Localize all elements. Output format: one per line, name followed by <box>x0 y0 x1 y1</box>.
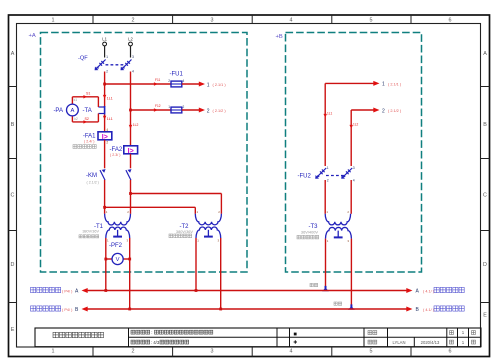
label -QF <box>78 55 88 61</box>
label -FA2 <box>110 147 123 153</box>
svg-text:3: 3 <box>211 349 214 355</box>
svg-text:E: E <box>11 327 15 333</box>
svg-text:380V/36V: 380V/36V <box>176 229 193 234</box>
CT terminal labels <box>74 92 91 121</box>
svg-text:2: 2 <box>132 18 135 24</box>
svg-text:6: 6 <box>449 349 452 355</box>
title block outline <box>35 328 481 347</box>
svg-text:-FU1: -FU1 <box>170 71 184 77</box>
zone column ticks top/bottom <box>93 15 411 357</box>
off-page arrow 1 right box <box>325 81 402 88</box>
svg-text:4: 4 <box>290 18 293 24</box>
wire mark F11 <box>154 78 161 86</box>
CT TA bracket <box>98 106 104 115</box>
svg-text:( 4.1/ ): ( 4.1/ ) <box>423 308 435 312</box>
wire voltmeter taps <box>106 258 130 260</box>
T2 center tap <box>204 230 213 237</box>
wire T3 sec left down <box>325 239 327 287</box>
cell designer label <box>368 340 377 344</box>
wire L1 down to feeder junction <box>104 72 106 108</box>
bus A right arrow <box>406 288 412 293</box>
zone row letters <box>11 51 488 333</box>
title block mid line <box>129 336 482 338</box>
junction T1 bus A <box>104 289 107 292</box>
bus B left arrow <box>82 307 88 312</box>
svg-text:( 2.3/ ): ( 2.3/ ) <box>110 153 120 157</box>
wire T1 sec right down <box>129 238 131 309</box>
svg-text:( 4.1/ ): ( 4.1/ ) <box>423 289 435 293</box>
wire CT loop left <box>71 97 73 122</box>
title block verticals <box>129 328 469 347</box>
svg-text:4: 4 <box>353 178 355 182</box>
svg-text:3: 3 <box>132 55 134 59</box>
svg-text:380V/36V: 380V/36V <box>82 230 99 234</box>
voltmeter PF2 <box>112 253 123 264</box>
junction feeder2 <box>129 109 132 112</box>
svg-text:2: 2 <box>207 108 210 114</box>
wire label L11 <box>324 112 333 118</box>
contactor KM pole2 <box>126 169 132 180</box>
svg-text:2: 2 <box>106 140 108 144</box>
label -PA <box>53 108 63 114</box>
bus A label right <box>416 287 465 294</box>
wire FU2 pole2 to T3 <box>350 180 352 214</box>
bus B label left <box>31 306 80 313</box>
revision plus <box>294 340 297 343</box>
svg-text:36V/400V: 36V/400V <box>301 230 318 235</box>
svg-text:4: 4 <box>106 128 108 132</box>
T2 rating text <box>176 229 193 234</box>
zone row ticks left/right <box>9 87 490 303</box>
svg-text:k2: k2 <box>74 117 78 121</box>
label -FU2 <box>298 173 312 179</box>
enclosure box +A <box>41 33 248 273</box>
svg-text:2: 2 <box>327 178 329 182</box>
svg-text:1: 1 <box>168 105 170 109</box>
svg-text:3: 3 <box>353 166 355 170</box>
fused switch FU2 pole1 <box>315 166 329 183</box>
transformer T3 primary <box>325 210 350 225</box>
svg-text:1L1: 1L1 <box>327 112 333 116</box>
label +A <box>29 33 36 39</box>
svg-text:+B: +B <box>276 34 283 40</box>
svg-text:5: 5 <box>370 18 373 24</box>
wire CT loop right <box>97 97 99 122</box>
ref FA2 <box>110 153 120 157</box>
svg-text:( P4/ ): ( P4/ ) <box>62 289 73 293</box>
bus tap T3 right <box>348 304 355 309</box>
wire label L21 <box>350 123 359 129</box>
bus A label left <box>31 287 80 294</box>
svg-text:A: A <box>483 51 487 57</box>
revision square <box>294 333 297 336</box>
terminal L1 <box>102 37 107 46</box>
wire T3 sec right down <box>350 239 352 305</box>
bus B label right <box>416 306 465 313</box>
wire feeder 2 <box>131 109 172 111</box>
net label right <box>334 302 342 305</box>
svg-text:2: 2 <box>132 349 135 355</box>
label +B <box>276 34 283 40</box>
svg-text:1L1: 1L1 <box>107 117 113 121</box>
transformer T1 primary <box>105 210 131 225</box>
note FA1 <box>73 145 96 149</box>
svg-text:-FU2: -FU2 <box>298 173 312 179</box>
svg-text:L2: L2 <box>128 37 133 42</box>
fused switch FU2 pole2 <box>341 166 355 183</box>
wire CT loop bottom <box>72 120 98 123</box>
bus A left arrow <box>82 288 88 293</box>
svg-text:S1: S1 <box>86 92 90 96</box>
svg-text:V: V <box>116 257 120 263</box>
date <box>421 340 440 345</box>
svg-text:6: 6 <box>449 18 452 24</box>
bus B right arrow <box>406 307 412 312</box>
ref KM <box>87 180 99 184</box>
wire T2 sec left down <box>195 238 197 291</box>
transformer T2 primary <box>195 210 221 225</box>
svg-text:( 2.1/2 ): ( 2.1/2 ) <box>87 180 99 184</box>
svg-text:( 2.1/1 ): ( 2.1/1 ) <box>213 83 227 87</box>
svg-text:1L2: 1L2 <box>133 123 139 127</box>
wire KM1 down <box>104 180 106 214</box>
transformer T3 secondary <box>326 227 352 243</box>
svg-text:S2: S2 <box>85 117 89 121</box>
wire KM2 down <box>130 180 132 214</box>
label -FU1 <box>170 71 184 77</box>
T3 rating text <box>301 230 318 235</box>
svg-text:( 2.1/2 ): ( 2.1/2 ) <box>213 109 227 113</box>
breaker QF mechanical link <box>106 64 124 66</box>
junction T2 feed upper <box>129 192 132 195</box>
svg-text:2: 2 <box>382 108 385 114</box>
wire down to FU2 pole2 <box>350 110 352 166</box>
company name <box>53 332 104 337</box>
svg-text:1: 1 <box>52 18 55 24</box>
bus tap T3 left <box>322 286 329 291</box>
svg-text:3: 3 <box>211 18 214 24</box>
project description row2 <box>131 340 189 345</box>
T3 center tap <box>334 231 343 238</box>
svg-text:5: 5 <box>370 349 373 355</box>
wire label 1L1 below CT <box>103 116 113 121</box>
svg-text:( 2.1/1 ): ( 2.1/1 ) <box>388 82 402 86</box>
svg-text:1: 1 <box>207 82 210 88</box>
svg-text:-QF: -QF <box>78 55 88 61</box>
svg-text:2: 2 <box>183 105 185 109</box>
label -T2 <box>180 224 190 230</box>
svg-text:1: 1 <box>382 82 385 88</box>
fuse FU1 pole1 <box>168 79 184 87</box>
contactor KM pole1 <box>100 169 106 180</box>
svg-text:2: 2 <box>168 79 170 83</box>
project description row1 <box>131 330 213 335</box>
sheet number row2 <box>450 340 476 345</box>
wire T2 sec right down <box>220 238 222 309</box>
terminal L2 <box>128 37 133 46</box>
svg-text:E: E <box>483 313 487 319</box>
svg-text:-KM: -KM <box>86 173 97 179</box>
svg-text:I>: I> <box>128 148 134 155</box>
svg-text:-TA: -TA <box>83 108 92 114</box>
wire CT loop top <box>72 95 98 98</box>
off-page arrow 2 <box>199 108 227 115</box>
enclosure box +B <box>286 33 422 273</box>
svg-text:4: 4 <box>132 70 134 74</box>
label -PF2 <box>109 243 123 249</box>
ref FA1 <box>84 140 94 144</box>
svg-text:1L2: 1L2 <box>353 123 359 127</box>
svg-text:1: 1 <box>327 166 329 170</box>
wire FA2 to KM2 <box>130 154 132 169</box>
svg-text:LYLAN: LYLAN <box>393 340 406 345</box>
svg-text:k1: k1 <box>74 98 78 102</box>
wire down to FU2 pole1 <box>324 83 326 166</box>
svg-text:D: D <box>11 262 15 268</box>
junction T2 feed lower <box>103 206 106 209</box>
transformer T2 secondary <box>196 227 221 242</box>
svg-text:-PF2: -PF2 <box>109 243 123 249</box>
ammeter PA <box>67 104 79 116</box>
wire feeder 1 <box>105 83 171 85</box>
svg-text:2: 2 <box>106 70 108 74</box>
T3 type text <box>297 235 319 239</box>
wire L1 stub <box>104 46 106 58</box>
svg-text:L1: L1 <box>102 37 107 42</box>
bus B line <box>84 308 408 310</box>
svg-text:1: 1 <box>106 55 108 59</box>
voltmeter junction left <box>104 258 107 261</box>
junction T1 bus B <box>128 308 131 311</box>
svg-text:: 4/3: : 4/3 <box>151 340 160 345</box>
wire L2 down <box>130 72 132 146</box>
label -T3 <box>309 224 319 230</box>
svg-text:F12: F12 <box>155 104 161 108</box>
svg-text:+A: +A <box>29 33 36 39</box>
label -KM <box>86 173 97 179</box>
zone column numbers <box>52 18 452 355</box>
designer name <box>393 340 406 345</box>
off-page arrow 2 right box <box>351 108 402 115</box>
svg-text:2020/4/13: 2020/4/13 <box>421 340 440 345</box>
svg-text:4: 4 <box>183 79 185 83</box>
junction T2 bus A <box>195 289 198 292</box>
wire to connector 2 <box>182 109 200 111</box>
svg-text:C: C <box>11 193 15 199</box>
svg-text:A: A <box>11 51 15 57</box>
cell drawing number label <box>368 331 377 335</box>
breaker QF pole 1 <box>95 55 109 74</box>
svg-text:4: 4 <box>290 349 293 355</box>
junction feeder1 <box>103 83 106 86</box>
T1 type text <box>79 235 99 238</box>
wire to T2 left <box>105 207 196 214</box>
breaker QF pole 2 <box>121 55 135 74</box>
T2 type text <box>169 234 192 238</box>
svg-text:B: B <box>483 122 487 128</box>
overcurrent relay FA2 <box>124 146 138 155</box>
label -T1 <box>94 224 104 230</box>
junction T2 bus B <box>219 308 222 311</box>
svg-text:( P4/ ): ( P4/ ) <box>62 308 73 312</box>
overcurrent relay FA1 <box>98 128 112 144</box>
net label left <box>310 283 318 286</box>
wire CT to FA1 <box>104 115 106 132</box>
label -FA1 <box>83 133 96 139</box>
svg-text:( 2.1/2 ): ( 2.1/2 ) <box>388 109 402 113</box>
svg-text::: : <box>151 330 152 335</box>
svg-text:1: 1 <box>52 349 55 355</box>
FU2 mechanical link <box>326 175 344 177</box>
bus A line <box>84 290 408 292</box>
T1 center tap <box>113 230 122 237</box>
svg-text:A: A <box>70 108 74 114</box>
T1 rating text <box>82 230 99 234</box>
svg-text:1L1: 1L1 <box>107 97 113 101</box>
svg-text:( 2.4/ ): ( 2.4/ ) <box>84 140 94 144</box>
svg-text:D: D <box>483 262 487 268</box>
transformer T1 secondary <box>106 227 130 242</box>
fuse FU1 pole2 <box>168 105 184 113</box>
svg-text:-FA1: -FA1 <box>83 133 96 139</box>
svg-text:-PA: -PA <box>53 108 63 114</box>
svg-text:C: C <box>483 193 487 199</box>
off-page arrow 1 <box>199 82 227 89</box>
wire label 1L2 <box>129 123 139 129</box>
svg-text:B: B <box>11 122 15 128</box>
wire mark F12 <box>154 104 161 112</box>
voltmeter junction right <box>128 258 131 261</box>
label -TA <box>83 108 92 114</box>
wire to T2 right <box>131 194 222 214</box>
wire L2 stub <box>130 46 132 58</box>
wire label 1L1 <box>103 95 113 101</box>
sheet total row1 <box>450 330 476 335</box>
wire FU2 pole1 to T3 <box>324 180 326 214</box>
wire FA1 to KM <box>104 140 106 169</box>
svg-text:F11: F11 <box>155 78 160 82</box>
wire T1 sec left down <box>105 238 107 291</box>
wire to connector 1 <box>182 83 200 85</box>
